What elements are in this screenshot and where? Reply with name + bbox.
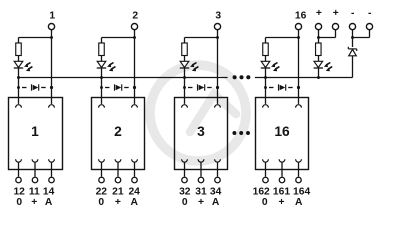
wire common LED rail (left segment)	[18, 77, 227, 79]
pin bottom K2 x=134	[132, 159, 138, 182]
node terminal label + (2)	[115, 197, 121, 208]
pin bottom K16 x=266	[263, 159, 269, 182]
wire power LED to rail	[318, 68, 320, 77]
pin socket top b K1	[49, 105, 55, 108]
pin bottom K3 x=184	[182, 159, 188, 182]
svg-text:+: +	[333, 8, 339, 19]
terminal circle power x=370	[366, 24, 372, 30]
wire input 1 vertical	[51, 30, 53, 104]
node terminal label 11	[29, 187, 40, 198]
wire jog to LED branch 1	[19, 38, 52, 44]
wire jog to LED branch 3	[185, 38, 218, 44]
relay K2 number	[114, 124, 122, 139]
svg-text:0: 0	[98, 197, 104, 208]
wire LED to rail 3	[184, 68, 186, 104]
svg-text:161: 161	[273, 187, 290, 198]
terminal circle power x=352	[349, 24, 355, 30]
pin bottom K1 x=52	[49, 159, 55, 182]
node junction on input 2	[133, 36, 136, 39]
svg-text:A: A	[130, 197, 138, 208]
node terminal label 162	[253, 187, 270, 198]
resistor R1	[16, 43, 22, 56]
terminal circle power x=336	[332, 24, 338, 30]
node rail junction 2	[100, 76, 103, 79]
wire jog to LED branch 16	[266, 38, 299, 44]
terminal circle 16	[295, 24, 301, 30]
svg-text:1: 1	[49, 11, 55, 22]
node junction on input 1	[50, 36, 53, 39]
node terminal label 24	[128, 187, 140, 198]
node terminal label 12	[13, 187, 25, 198]
node terminal label 34	[210, 187, 222, 198]
wire resistor to power LED	[318, 56, 320, 62]
svg-text:164: 164	[293, 187, 310, 198]
diode V3 (free-wheeling, dashed links)	[183, 84, 219, 90]
node terminal label 164	[293, 187, 310, 198]
svg-text:+: +	[278, 197, 284, 208]
svg-text:162: 162	[253, 187, 270, 198]
node junction minus	[351, 36, 354, 39]
node junction on input 16	[297, 36, 300, 39]
node terminal label + (16)	[278, 197, 284, 208]
svg-text:-: -	[351, 8, 355, 19]
svg-text:0: 0	[16, 197, 22, 208]
pin bottom K2 x=118	[115, 159, 121, 182]
svg-text:+: +	[31, 197, 37, 208]
watermark logo (faint gray ring with arrow)	[150, 65, 246, 161]
pin bottom K3 x=201	[198, 159, 204, 182]
LED D2	[97, 61, 116, 71]
relay K16 number	[274, 124, 290, 139]
LED D3	[180, 61, 199, 71]
LED D1	[14, 61, 33, 71]
node terminal label + (1)	[31, 197, 37, 208]
node rail junction 16	[264, 76, 267, 79]
node terminal label 31	[195, 187, 207, 198]
diode V16 (free-wheeling, dashed links)	[264, 84, 300, 90]
node terminal label A (3)	[212, 197, 220, 208]
pin socket top b K3	[215, 105, 221, 108]
LED D17 (supply indicator)	[314, 61, 333, 71]
svg-text:0: 0	[182, 197, 188, 208]
svg-text:A: A	[45, 197, 53, 208]
node rail junction 3	[183, 76, 186, 79]
node terminal label 0 (2)	[98, 197, 104, 208]
zener diode V17 (polarity protection)	[348, 47, 356, 56]
svg-text:0: 0	[262, 197, 268, 208]
svg-text:2: 2	[114, 124, 122, 139]
wire common LED rail (right segment)	[255, 77, 353, 79]
svg-text:16: 16	[274, 124, 290, 139]
svg-text:A: A	[212, 197, 220, 208]
node rail junction power LED	[317, 76, 320, 79]
node terminal label 0 (3)	[182, 197, 188, 208]
node ellipsis dots between relays	[232, 131, 250, 135]
svg-text:-: -	[368, 8, 372, 19]
node terminal label A (2)	[130, 197, 138, 208]
svg-text:+: +	[198, 197, 204, 208]
resistor R16	[263, 43, 269, 56]
relay K1 box	[9, 98, 63, 170]
node terminal label 0 (16)	[262, 197, 268, 208]
node terminal label 14	[43, 187, 55, 198]
svg-text:A: A	[295, 197, 303, 208]
svg-text:2: 2	[132, 11, 138, 22]
svg-text:31: 31	[195, 187, 207, 198]
pin bottom K16 x=282	[279, 159, 285, 182]
wire LED to rail 1	[18, 68, 20, 104]
svg-text:21: 21	[112, 187, 124, 198]
node input terminal label 3	[215, 11, 221, 22]
wire input 2 vertical	[134, 30, 136, 104]
node junction on input 3	[216, 36, 219, 39]
svg-text:12: 12	[13, 187, 25, 198]
svg-text:16: 16	[295, 11, 307, 22]
svg-text:14: 14	[43, 187, 55, 198]
terminal circle 1	[48, 24, 54, 30]
relay K3 number	[197, 124, 205, 139]
pin socket top b K16	[296, 105, 302, 108]
svg-text:1: 1	[31, 124, 39, 139]
wire minus bridge	[353, 30, 370, 47]
diode V1 (free-wheeling, dashed links)	[17, 84, 53, 90]
node terminal label 161	[273, 187, 290, 198]
resistor R3	[182, 43, 188, 56]
relay K2 box	[92, 98, 145, 170]
terminal circle power x=318	[315, 24, 321, 30]
svg-text:24: 24	[128, 187, 140, 198]
wire jog to LED branch 2	[102, 38, 135, 44]
LED D16	[261, 61, 280, 71]
node ellipsis dots on rail	[233, 75, 251, 79]
relay K1 number	[31, 124, 39, 139]
wire plus bridge	[319, 30, 336, 43]
wire resistor to LED 1	[18, 56, 20, 62]
node terminal label A (1)	[45, 197, 53, 208]
node terminal label 32	[179, 187, 191, 198]
pin bottom K1 x=35	[32, 159, 38, 182]
wire resistor to LED 2	[101, 56, 103, 62]
wire zener to rail corner	[352, 56, 354, 78]
pin bottom K1 x=18	[16, 159, 22, 182]
wire LED to rail 2	[101, 68, 103, 104]
node terminal label + (3)	[198, 197, 204, 208]
svg-text:3: 3	[215, 11, 221, 22]
node rail junction 1	[17, 76, 20, 79]
node terminal label 21	[112, 187, 124, 198]
node input terminal label 2	[132, 11, 138, 22]
wire input 16 vertical	[298, 30, 300, 104]
node input terminal label 16	[295, 11, 307, 22]
svg-text:34: 34	[210, 187, 222, 198]
relay K16 box	[256, 98, 309, 170]
terminal circle 2	[131, 24, 137, 30]
pin socket top b K2	[132, 105, 138, 108]
pin bottom K3 x=218	[215, 159, 221, 182]
pin socket top a K2	[99, 105, 105, 108]
resistor R17 (power LED)	[316, 43, 322, 56]
node terminal label A (16)	[295, 197, 303, 208]
pin socket top a K16	[263, 105, 269, 108]
node terminal label 0 (1)	[16, 197, 22, 208]
wire resistor to LED 3	[184, 56, 186, 62]
terminal circle 3	[214, 24, 220, 30]
svg-text:32: 32	[179, 187, 191, 198]
svg-text:+: +	[316, 8, 322, 19]
pin bottom K2 x=102	[99, 159, 105, 182]
node junction plus	[317, 36, 320, 39]
resistor R2	[99, 43, 105, 56]
diode V2 (free-wheeling, dashed links)	[100, 84, 136, 90]
pin socket top a K3	[182, 105, 188, 108]
wire input 3 vertical	[217, 30, 219, 104]
wire LED to rail 16	[265, 68, 267, 104]
svg-text:3: 3	[197, 124, 205, 139]
node terminal label 22	[96, 187, 108, 198]
svg-text:11: 11	[29, 187, 40, 198]
pin socket top a K1	[16, 105, 22, 108]
svg-text:+: +	[115, 197, 121, 208]
svg-text:22: 22	[96, 187, 108, 198]
node power terminal labels + + - -	[316, 8, 339, 19]
node input terminal label 1	[49, 11, 55, 22]
relay K3 box	[175, 98, 228, 170]
wire resistor to LED 16	[265, 56, 267, 62]
pin bottom K16 x=298	[296, 159, 302, 182]
